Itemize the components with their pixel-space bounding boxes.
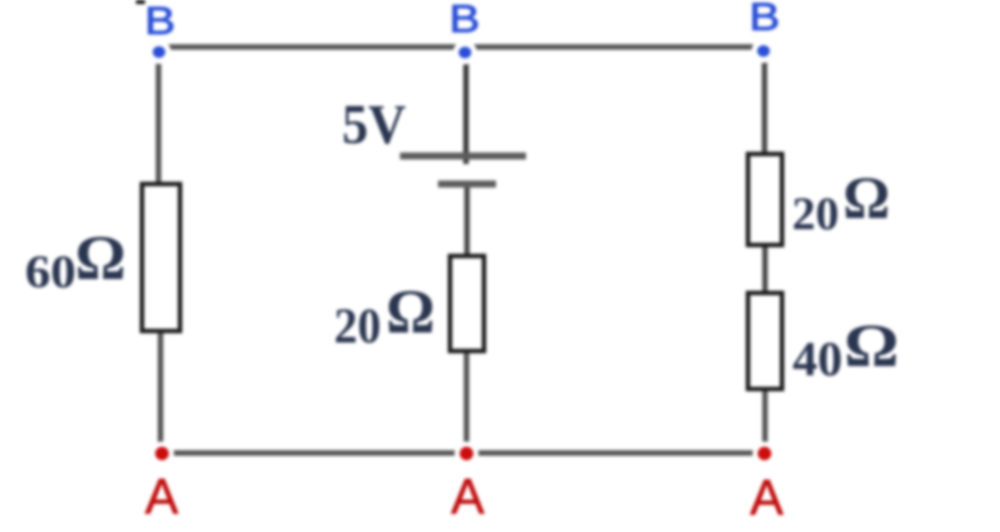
svg-text:B: B — [145, 0, 176, 43]
svg-text:60: 60 — [25, 246, 76, 298]
svg-text:A: A — [145, 469, 179, 525]
svg-text:Ω: Ω — [844, 313, 899, 380]
svg-text:5V: 5V — [342, 94, 406, 156]
svg-text:40: 40 — [793, 331, 843, 386]
svg-text:20: 20 — [334, 297, 381, 353]
svg-text:Ω: Ω — [386, 279, 435, 347]
svg-text:Ω: Ω — [843, 165, 890, 231]
svg-text:A: A — [750, 470, 784, 526]
svg-text:A: A — [451, 469, 485, 525]
svg-text:B: B — [749, 0, 780, 39]
svg-text:20: 20 — [792, 188, 839, 240]
svg-text:B: B — [449, 0, 480, 41]
svg-text:Ω: Ω — [75, 223, 126, 293]
